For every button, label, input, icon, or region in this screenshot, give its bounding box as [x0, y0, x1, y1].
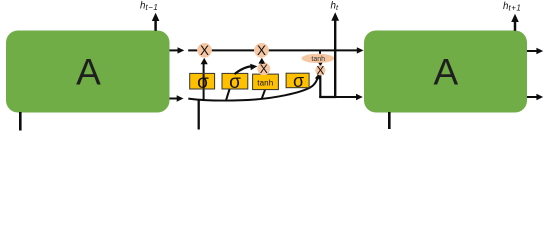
- h_t vertical line with arrow: [334, 20, 336, 99]
- LSTM cell block A (left): [6, 31, 170, 113]
- hidden state arrow out of right block: [527, 96, 537, 98]
- input stub x_t (below middle cell): [198, 99, 200, 130]
- wire across bottom to h_t branch: [319, 96, 336, 98]
- svg-text:X: X: [260, 62, 268, 76]
- svg-text:tanh: tanh: [257, 78, 273, 87]
- top rail segment into right block with arrow: [269, 49, 357, 51]
- small multiply Xa (input gate x candidate): [257, 62, 270, 75]
- svg-text:X: X: [257, 43, 266, 58]
- pointwise multiply X2 (cell update): [254, 43, 269, 58]
- output arrow h_t+1 (top of right block): [514, 21, 517, 31]
- LSTM cell block A (right): [364, 31, 527, 113]
- tick from top rail down into tanh ellipse: [319, 50, 321, 55]
- sigma box 4 (output gate): [286, 73, 309, 88]
- top rail segment into multiply X1: [188, 49, 197, 51]
- pointwise multiply X1 (forget gate): [197, 43, 212, 58]
- sigma box 1 (forget gate): [190, 73, 215, 89]
- input stub x_t+1 (below right block): [388, 112, 391, 129]
- leg from rail to tanh box: [262, 90, 266, 100]
- svg-text:A: A: [433, 52, 458, 93]
- svg-text:σ: σ: [197, 72, 209, 93]
- bottom input rail sweeping up to output multiply (swoosh): [188, 78, 317, 101]
- top rail segment X1 to X2: [212, 49, 254, 51]
- svg-text:tanh: tanh: [311, 56, 325, 63]
- tanh ellipse (cell state activation): [302, 54, 335, 63]
- svg-text:ht−1: ht−1: [140, 0, 158, 12]
- svg-text:σ: σ: [293, 71, 304, 91]
- wire from Xb down: [319, 75, 321, 97]
- cell state arrow out of right block: [527, 50, 537, 52]
- sigma box 2 (input gate): [222, 73, 248, 89]
- svg-text:ht: ht: [331, 0, 339, 12]
- svg-text:A: A: [76, 52, 101, 93]
- hidden state arrow into right block: [335, 96, 356, 98]
- cell-state arrow out of left block (top rail): [170, 49, 179, 51]
- svg-text:ht+1: ht+1: [503, 1, 521, 13]
- hidden-state arrow out of left block (bottom rail): [170, 98, 178, 100]
- svg-text:X: X: [200, 43, 209, 58]
- svg-text:σ: σ: [229, 72, 241, 93]
- output multiply Xb: [315, 65, 325, 75]
- output arrow h_t-1 (top of left block): [154, 20, 157, 31]
- input stub x_t-1 (below left block): [19, 112, 22, 131]
- forget gate feeder line (through sigma box 1 up to X1): [203, 62, 205, 101]
- arrow from ellipse into output multiply Xb: [318, 63, 322, 67]
- leg from rail to sigma box 2: [226, 89, 230, 100]
- curve from sigma box 2 to small multiply Xa: [235, 66, 252, 74]
- tanh box (candidate): [253, 74, 279, 90]
- link Xa up to X2: [261, 62, 263, 64]
